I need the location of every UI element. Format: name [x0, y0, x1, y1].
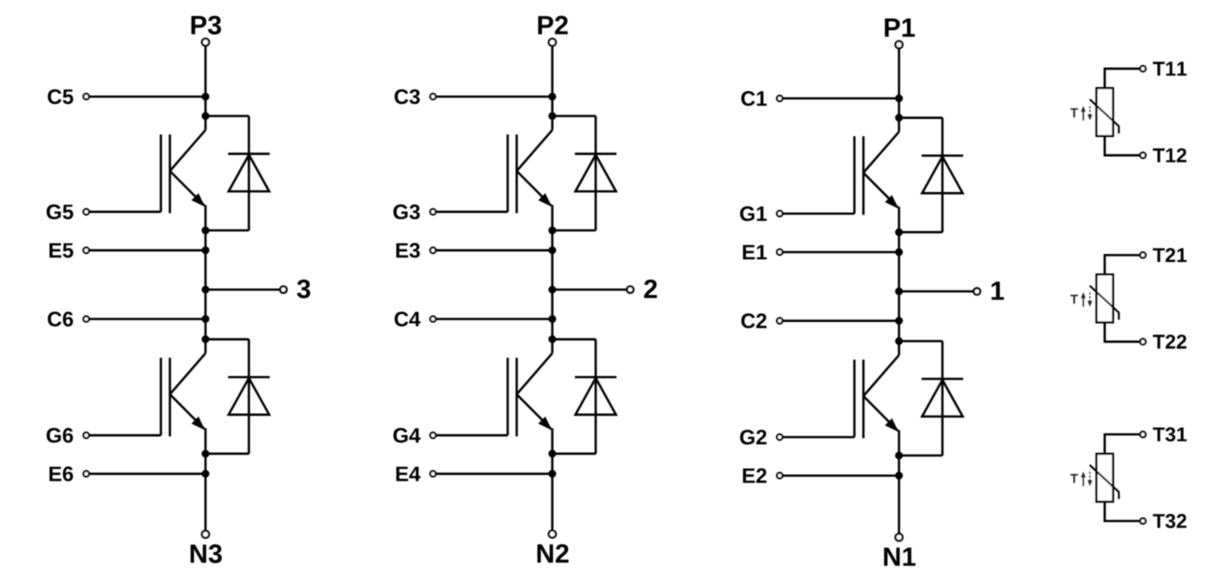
node 3 (phase output) — [202, 280, 311, 299]
transistor Q6 (IGBT) — [161, 353, 206, 436]
node 2 (phase output) — [548, 280, 657, 299]
terminal E5 — [50, 243, 89, 258]
diode D6 — [228, 339, 270, 453]
wire upper diode branch (top) — [552, 115, 595, 117]
transistor Q1 (IGBT) — [854, 132, 899, 215]
transistor Q5 (IGBT) — [161, 130, 206, 213]
terminal T22 — [1140, 335, 1186, 349]
wire G5 gate lead — [89, 211, 161, 213]
junction loop1 top — [202, 112, 210, 120]
junction at E1 tap — [895, 248, 903, 256]
terminal T21 — [1140, 248, 1187, 262]
wire G6 gate lead — [89, 434, 161, 436]
wire E6 tap — [89, 473, 206, 475]
wire thermistor to T32 — [1105, 502, 1140, 521]
terminal C3 — [395, 89, 436, 104]
terminal N1 — [884, 534, 915, 566]
temperature label T with arrows (RT2) — [1070, 292, 1092, 307]
terminal G2 — [740, 430, 782, 445]
wire G3 gate lead — [436, 211, 508, 213]
terminal P1 — [885, 19, 915, 49]
terminal G3 — [393, 204, 435, 219]
wire C5 tap — [89, 95, 206, 97]
terminal E4 — [396, 467, 436, 481]
terminal P3 — [191, 16, 221, 46]
terminal G4 — [393, 428, 435, 443]
junction loop2 bottom — [202, 450, 210, 458]
wire upper diode branch (top) — [206, 115, 249, 117]
junction at E4 tap — [548, 470, 556, 478]
junction at C1 tap — [895, 95, 903, 103]
terminal C5 — [48, 89, 89, 104]
wire T31 to thermistor — [1105, 434, 1140, 453]
wire C3 tap — [436, 95, 553, 97]
wire lower diode branch (top) — [206, 338, 249, 340]
wire lower diode branch (top) — [552, 338, 595, 340]
terminal C1 — [741, 91, 782, 106]
wire lower diode branch (bottom) — [899, 454, 942, 456]
wire G2 gate lead — [783, 436, 855, 438]
junction loop1 bottom — [895, 228, 903, 236]
terminal N2 — [537, 531, 568, 563]
terminal T32 — [1140, 514, 1186, 528]
wire lower emitter to N2 — [551, 428, 553, 530]
diode D3 — [575, 116, 617, 230]
wire E4 tap — [436, 473, 553, 475]
terminal T11 — [1140, 62, 1187, 76]
diode D5 — [228, 116, 270, 230]
wire lower emitter to N3 — [204, 428, 206, 530]
wire emitter1 to collector2 (mid rail) — [551, 205, 553, 353]
transistor Q4 (IGBT) — [508, 353, 553, 436]
wire P3 down to upper IGBT collector — [204, 46, 206, 130]
junction loop2 bottom — [548, 450, 556, 458]
wire E5 tap — [89, 249, 206, 251]
junction loop1 bottom — [202, 227, 210, 235]
wire lower diode branch (bottom) — [206, 453, 249, 455]
junction at E3 tap — [548, 246, 556, 254]
terminal N3 — [191, 531, 222, 563]
wire lower emitter to N1 — [898, 430, 900, 534]
junction loop2 top — [202, 335, 210, 343]
junction loop1 bottom — [548, 227, 556, 235]
transistor Q3 (IGBT) — [508, 130, 553, 213]
terminal E6 — [50, 466, 89, 481]
terminal C2 — [741, 313, 782, 328]
wire thermistor to T22 — [1105, 322, 1140, 341]
terminal T12 — [1140, 148, 1186, 162]
wire E2 tap — [783, 474, 900, 476]
wire thermistor to T12 — [1105, 136, 1140, 155]
junction at C5 tap — [202, 93, 210, 101]
wire emitter1 to collector2 (mid rail) — [898, 207, 900, 355]
junction at C2 tap — [895, 317, 903, 325]
temperature label T with arrows (RT1) — [1070, 106, 1092, 121]
thermistor RT3 (NTC) — [1090, 454, 1119, 502]
temperature label T with arrows (RT3) — [1070, 472, 1092, 487]
junction loop2 top — [548, 335, 556, 343]
terminal E3 — [396, 243, 436, 258]
wire C6 tap — [89, 318, 206, 320]
terminal C4 — [395, 312, 436, 327]
wire E1 tap — [783, 251, 900, 253]
wire T21 to thermistor — [1105, 255, 1140, 274]
diode D4 — [575, 339, 617, 453]
terminal G6 — [47, 428, 89, 443]
terminal G5 — [47, 204, 89, 219]
junction loop2 top — [895, 337, 903, 345]
junction loop2 bottom — [895, 452, 903, 460]
wire upper diode branch (top) — [899, 117, 942, 119]
wire C1 tap — [783, 97, 900, 99]
wire emitter1 to collector2 (mid rail) — [204, 205, 206, 353]
junction loop1 top — [895, 114, 903, 122]
terminal G1 — [740, 206, 782, 221]
wire upper diode branch (bottom) — [206, 229, 249, 231]
wire E3 tap — [436, 249, 553, 251]
transistor Q2 (IGBT) — [854, 355, 899, 438]
wire P2 down to upper IGBT collector — [551, 46, 553, 130]
junction at C4 tap — [548, 315, 556, 323]
diode D1 — [922, 118, 964, 232]
thermistor RT1 (NTC) — [1090, 88, 1119, 136]
wire upper diode branch (bottom) — [552, 229, 595, 231]
junction at E2 tap — [895, 472, 903, 480]
wire lower diode branch (bottom) — [552, 453, 595, 455]
terminal T31 — [1140, 427, 1187, 441]
wire C2 tap — [783, 320, 900, 322]
wire C4 tap — [436, 318, 553, 320]
node 1 (phase output) — [895, 282, 1004, 300]
junction at C3 tap — [548, 93, 556, 101]
terminal E2 — [743, 468, 783, 483]
terminal E1 — [743, 245, 783, 259]
junction at E6 tap — [202, 470, 210, 478]
wire upper diode branch (bottom) — [899, 231, 942, 233]
wire lower diode branch (top) — [899, 340, 942, 342]
junction at C6 tap — [202, 315, 210, 323]
thermistor RT2 (NTC) — [1090, 275, 1119, 323]
wire T11 to thermistor — [1105, 69, 1140, 88]
junction loop1 top — [548, 112, 556, 120]
terminal P2 — [538, 16, 568, 46]
wire G4 gate lead — [436, 434, 508, 436]
wire G1 gate lead — [783, 212, 855, 214]
junction at E5 tap — [202, 246, 210, 254]
terminal C6 — [48, 312, 89, 327]
wire P1 down to upper IGBT collector — [898, 48, 900, 132]
diode D2 — [922, 341, 964, 455]
